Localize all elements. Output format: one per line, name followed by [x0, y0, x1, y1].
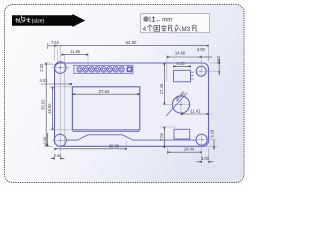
dim 35.03 rotated left	[45, 63, 47, 146]
svg-text:27.64: 27.64	[99, 89, 110, 94]
dim 2.50 rotated bottom-left hole	[47, 133, 49, 146]
bottom-right small rect component	[174, 129, 190, 139]
svg-text:17.40: 17.40	[159, 83, 164, 94]
dim 14.44 bottom-right	[167, 151, 201, 153]
gray extension line: bottom-left hole horizontal centerline	[52, 139, 70, 141]
PCB board outline	[55, 63, 209, 146]
svg-text:mm: mm	[162, 18, 172, 24]
svg-text:14.66: 14.66	[175, 51, 186, 56]
dim 3.18 rotated bottom-right	[213, 140, 215, 147]
dim 7.04 rotated	[163, 127, 165, 148]
big circle crosshair	[171, 104, 191, 106]
banner text 外尺寸(size)	[15, 15, 30, 22]
svg-text:7.62: 7.62	[51, 40, 60, 45]
svg-text:4.01: 4.01	[40, 78, 49, 83]
svg-text:4.10: 4.10	[177, 61, 186, 66]
pin pads (8 round)	[77, 67, 124, 72]
dim 3.00 bottom-right small	[197, 161, 202, 163]
svg-text:35.03: 35.03	[41, 99, 46, 110]
top-right rect pins	[191, 72, 194, 79]
svg-text:2.50: 2.50	[42, 136, 47, 145]
gray extension line: second left vertical	[64, 55, 66, 146]
svg-text:7.04: 7.04	[159, 132, 164, 141]
svg-text:30.30: 30.30	[109, 143, 120, 148]
big circle hole right	[172, 96, 189, 113]
dim 64.90 top	[55, 45, 209, 47]
svg-text:3.00: 3.00	[197, 47, 206, 52]
svg-text:2.50: 2.50	[216, 55, 221, 64]
info text line1 单位：mm	[144, 16, 155, 22]
dim 14.66 / 3.00 top-right	[167, 56, 202, 58]
mounting hole top-left	[55, 62, 67, 74]
page background	[0, 0, 250, 188]
title banner black arrow	[12, 14, 85, 27]
top-right small rect component	[174, 70, 191, 82]
dim 2.50 below bottom-left hole	[51, 157, 55, 159]
bottom interior recess zigzag line	[66, 135, 196, 140]
svg-text:3.00: 3.00	[201, 156, 210, 161]
dim 4.01 left	[41, 83, 72, 85]
screen outline rectangle	[72, 87, 139, 130]
gray extension line: 7.62 dim right extension vertical	[57, 47, 59, 63]
dim 7.62 top-left	[48, 45, 62, 47]
dashed page border	[5, 5, 245, 183]
svg-text:11.36: 11.36	[70, 49, 81, 54]
pin header outline	[74, 65, 133, 73]
gray extension line: top-left hole horizontal centerline	[52, 67, 71, 69]
svg-text:3.18: 3.18	[209, 129, 214, 138]
svg-text:64.90: 64.90	[126, 40, 137, 45]
big circle diameter leader diagonal	[166, 93, 187, 116]
mounting hole top-right	[196, 66, 206, 76]
dim 2.50 rotated top-right	[218, 63, 220, 71]
pin pad square (pin 1)	[127, 67, 133, 73]
dim 4.10 top-right rect	[174, 65, 191, 67]
mounting hole bottom-left	[54, 134, 66, 146]
gray extension line: left holes centerline vertical	[59, 46, 61, 153]
svg-text:(size): (size)	[32, 19, 45, 25]
dim 11.36	[62, 54, 88, 56]
svg-text:2.00: 2.00	[39, 63, 44, 72]
dim 18.92 rotated left	[52, 87, 54, 130]
svg-text:14.44: 14.44	[184, 147, 195, 152]
svg-text:M3: M3	[182, 27, 191, 33]
dim 30.30 bottom	[55, 148, 127, 150]
svg-text:18.92: 18.92	[47, 103, 52, 114]
gray extension line: 2.00 dim horizontal	[44, 64, 56, 66]
screen lower parallel line	[72, 131, 139, 133]
svg-text:11.41: 11.41	[191, 108, 202, 113]
dim 11.41	[181, 113, 209, 115]
info box	[141, 14, 210, 33]
dim 27.64 inside screen	[73, 93, 139, 95]
dim 17.40 rotated	[163, 63, 165, 104]
mounting hole bottom-right	[196, 134, 207, 145]
svg-text:2.50: 2.50	[54, 153, 63, 158]
